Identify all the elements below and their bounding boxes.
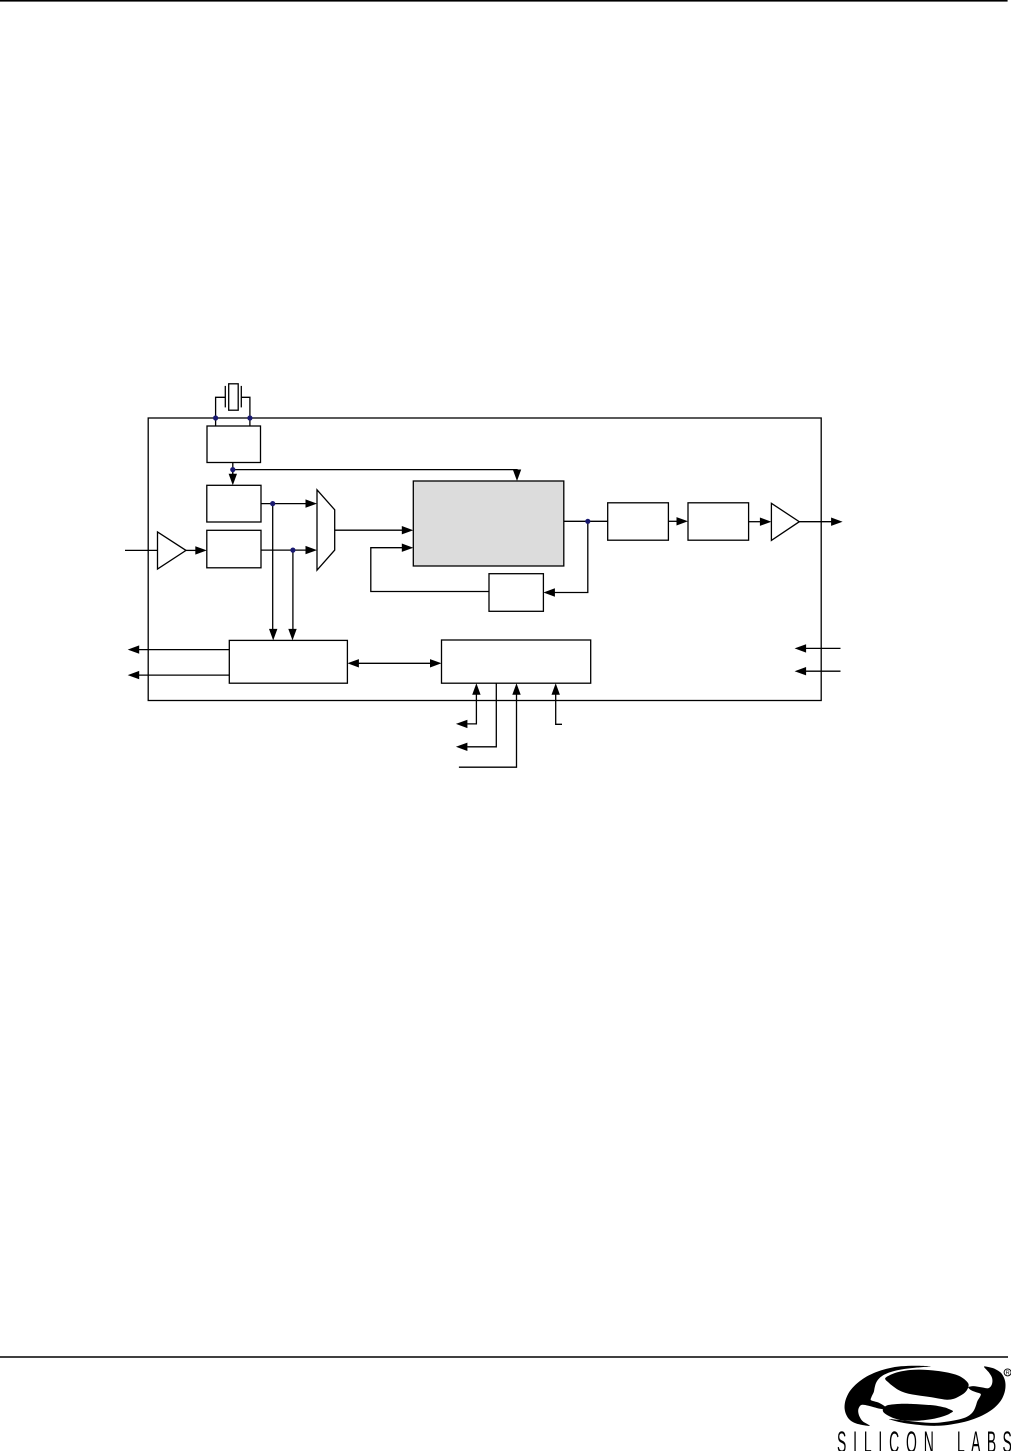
output stage U7 — [688, 503, 749, 540]
arrowhead into feedback divider right edge — [543, 588, 555, 596]
node REF junction — [230, 467, 235, 472]
input buffer A1 — [158, 532, 187, 569]
arrowhead pin D up — [552, 683, 560, 695]
wire U7 to output buffer — [749, 521, 761, 523]
silicon labs logo swirl — [837, 1366, 1011, 1451]
serial interface block U9 — [442, 640, 591, 683]
wire chip output — [799, 521, 831, 523]
control block U8 — [229, 640, 347, 683]
arrowhead into second output box — [677, 517, 689, 525]
wire buffer to divider — [186, 549, 197, 551]
wire external input — [125, 549, 158, 551]
arrowhead pin A up — [472, 683, 480, 695]
wire XB stub into oscillator — [249, 418, 251, 426]
node C junction — [290, 548, 295, 553]
logo swirl upper S lobe — [885, 1370, 969, 1400]
oscillator block U1 — [207, 426, 261, 463]
wire U3 out to mux — [261, 549, 307, 551]
wire feedback up into DSPLL — [371, 548, 489, 592]
wire crystal right lead — [241, 397, 250, 418]
crystal Y1 right electrode — [240, 386, 242, 408]
arrowhead into left control box — [269, 629, 277, 641]
wire oscillator output down — [232, 463, 234, 474]
arrowhead pin C up — [512, 683, 520, 695]
output divider U6 — [608, 503, 669, 540]
arrowhead into mux upper input — [306, 499, 318, 507]
logo swirl right crescent — [889, 1366, 1006, 1425]
svg-text:R: R — [1006, 1370, 1010, 1376]
wire XA stub into oscillator — [215, 418, 217, 426]
wire control bus bidirectional — [359, 662, 431, 664]
arrowhead bidir left — [347, 659, 359, 667]
wire U2 out to mux — [261, 503, 307, 505]
divider block U3 — [207, 530, 261, 568]
footer rule — [0, 1356, 1008, 1358]
arrowhead into mux lower input — [306, 546, 318, 554]
node OUT junction — [585, 519, 590, 524]
arrowhead into left control box 2 — [288, 629, 296, 641]
arrowhead into output buffer — [760, 518, 772, 526]
arrowhead into lower divider from input buffer — [195, 546, 207, 554]
wire U6 to U7 — [668, 520, 677, 522]
wire control out upper — [139, 649, 229, 651]
arrowhead bidir right — [430, 659, 442, 667]
wire right control input upper — [806, 647, 841, 649]
node XB junction — [247, 415, 252, 420]
arrowhead right in upper — [795, 644, 807, 652]
arrowhead pin A left — [456, 720, 468, 728]
wire oscillator output to DSPLL reference — [233, 470, 517, 474]
logo registered trademark — [1004, 1369, 1011, 1377]
wire right control input lower — [806, 670, 841, 672]
arrowhead chip left out upper — [128, 645, 140, 653]
wire crystal left lead — [216, 397, 226, 418]
wire pin A serial data — [467, 695, 476, 724]
DSPLL block U4 — [413, 481, 564, 566]
node B junction — [270, 501, 275, 506]
wire pin B serial out — [467, 683, 496, 747]
multiplexer M1 — [317, 490, 335, 570]
logo swirl left crescent — [845, 1366, 931, 1426]
divider block U2 — [207, 485, 261, 522]
wire control out lower — [139, 674, 229, 676]
arrowhead pin B left — [456, 743, 468, 751]
wire node C down to control — [292, 550, 294, 629]
logo swirl lower S lobe — [883, 1404, 953, 1421]
arrowhead chip output — [831, 518, 843, 526]
arrowhead feedback into DSPLL — [402, 544, 414, 552]
wire pin D select — [556, 695, 562, 725]
wire node B down to control — [272, 504, 274, 630]
output buffer A2 — [771, 503, 799, 540]
svg-text:SILICON: SILICON — [837, 1425, 934, 1451]
chip outline (device boundary) — [148, 418, 821, 701]
wire feedback tap down — [555, 521, 588, 592]
arrowhead into divider box top — [229, 474, 237, 486]
wire into divider 1 — [232, 470, 234, 478]
wire mux output — [335, 529, 403, 531]
node XA junction — [213, 415, 218, 420]
arrowhead chip left out lower — [128, 671, 140, 679]
header rule — [0, 0, 1008, 2]
crystal Y1 body — [229, 384, 239, 410]
logo wordmark SILICON LABS — [837, 1425, 1011, 1451]
feedback divider U5 — [489, 574, 543, 612]
arrowhead into DSPLL top — [513, 470, 521, 482]
arrowhead right in lower — [795, 667, 807, 675]
svg-text:LABS: LABS — [957, 1425, 1011, 1451]
arrowhead mux output into DSPLL — [402, 526, 414, 534]
wire pin C serial clock — [459, 695, 517, 768]
crystal Y1 left electrode — [224, 386, 226, 408]
wire DSPLL output — [564, 520, 608, 522]
